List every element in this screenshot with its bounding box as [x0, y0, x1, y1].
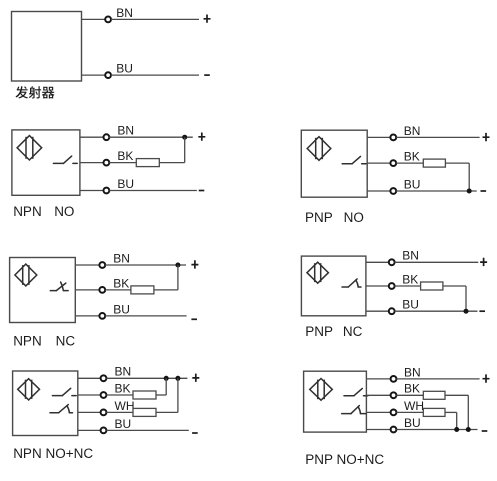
wire BU stub (PNP NO)	[367, 190, 390, 192]
wire BK to resistor (NPN NC)	[105, 289, 131, 291]
wire BU stub (NPN NO)	[80, 190, 103, 192]
resistor load 2 (NPN NO+NC)	[133, 408, 156, 416]
node BN (PNP NO)	[390, 135, 396, 141]
wire BU (PNP NO)	[396, 190, 477, 192]
svg-text:PNP NO+NC: PNP NO+NC	[305, 452, 384, 467]
resistor load (NPN NC)	[131, 286, 154, 294]
caption 发射器	[16, 86, 55, 98]
node BN (NPN NO)	[104, 134, 110, 140]
junction BN/WH tie (NPN NO+NC)	[175, 376, 180, 381]
resistor load (PNP NC)	[421, 282, 443, 290]
sensor symbol (rhombus) (PNP NO)	[307, 137, 331, 161]
svg-text:PNP: PNP	[305, 210, 333, 225]
svg-text:BU: BU	[404, 416, 421, 430]
resistor load 1 (NPN NO+NC)	[133, 391, 156, 399]
wire BN (PNP NO)	[396, 136, 480, 138]
wire BU stub (transmitter)	[82, 74, 106, 76]
svg-text:WH: WH	[115, 399, 135, 413]
minus terminal NPN NO -	[199, 190, 205, 192]
wire BU stub (NPN NO+NC)	[78, 429, 101, 431]
wire resistor to riser (NPN NC)	[154, 289, 178, 291]
sensor body NPN NO+NC sensor	[13, 371, 78, 436]
svg-text:BU: BU	[116, 62, 133, 76]
node BU (NPN NO)	[104, 188, 110, 194]
resistor load (NPN NO)	[136, 159, 159, 167]
sensor symbol (rhombus) (NPN NO)	[17, 136, 42, 160]
wire dropper WH (PNP NO+NC)	[456, 412, 458, 429]
switch contact NO (PNP NO+NC)	[344, 388, 368, 395]
sensor symbol (rhombus) (PNP NC)	[307, 262, 328, 283]
junction BN/BK tie (NPN NC)	[175, 263, 180, 268]
svg-text:BU: BU	[402, 298, 419, 312]
svg-text:BU: BU	[113, 302, 130, 316]
sensor body PNP NO+NC sensor	[304, 371, 367, 432]
wire BN (NPN NO+NC)	[106, 377, 187, 379]
node BU (PNP NO)	[390, 188, 396, 194]
wire resistor to dropper2 (PNP NO+NC)	[445, 411, 457, 413]
wire BU (transmitter)	[111, 74, 199, 76]
resistor load 1 (PNP NO+NC)	[423, 391, 445, 399]
sensor symbol (rhombus) (NPN NO+NC)	[18, 379, 40, 400]
wire BN (PNP NO+NC)	[396, 378, 479, 380]
wire BK to resistor (NPN NO+NC)	[106, 394, 133, 396]
node BN (PNP NO+NC)	[391, 376, 397, 382]
svg-text:BN: BN	[402, 249, 419, 263]
plus terminal transmitter +	[204, 15, 211, 23]
svg-text:NPN: NPN	[13, 333, 42, 348]
svg-text:WH: WH	[404, 399, 424, 413]
wire dropper BK (PNP NO+NC)	[467, 395, 469, 429]
sensor body PNP NO sensor	[301, 130, 367, 197]
wire BN (NPN NO)	[109, 136, 193, 138]
wire resistor to riser2 (NPN NO+NC)	[156, 411, 178, 413]
wire BU (NPN NO+NC)	[106, 429, 189, 431]
wire BU (PNP NC)	[395, 310, 478, 312]
wire riser BK (NPN NO+NC)	[165, 378, 167, 395]
wire BN stub (PNP NO+NC)	[366, 378, 390, 380]
svg-text:PNP: PNP	[305, 324, 333, 339]
svg-text:BU: BU	[115, 417, 132, 431]
wire BU stub (PNP NC)	[366, 310, 389, 312]
wire riser (NPN NO)	[184, 137, 186, 162]
svg-text:BN: BN	[113, 251, 130, 265]
wire BN stub (PNP NC)	[366, 261, 389, 263]
plus terminal NPN NO+NC +	[192, 374, 199, 382]
wire WH to resistor (NPN NO+NC)	[106, 411, 133, 413]
node BK (NPN NO+NC)	[101, 392, 107, 398]
wire BK stub (NPN NC)	[75, 289, 99, 291]
resistor load (PNP NO)	[423, 159, 445, 167]
plus terminal NPN NC +	[191, 260, 198, 268]
node BN (PNP NC)	[389, 259, 395, 265]
minus terminal NPN NC -	[191, 318, 197, 320]
wire BK stub (NPN NO)	[80, 162, 103, 164]
wire BU (NPN NO)	[109, 190, 197, 192]
svg-text:BN: BN	[116, 6, 133, 20]
switch contact NC (PNP NC)	[342, 279, 361, 287]
resistor load 2 (PNP NO+NC)	[423, 408, 445, 416]
wire WH stub (NPN NO+NC)	[78, 411, 101, 413]
switch contact NC (PNP NO+NC)	[342, 406, 366, 414]
plus terminal PNP NO +	[483, 133, 490, 141]
wire resistor to riser (NPN NO)	[159, 162, 184, 164]
svg-text:BK: BK	[115, 381, 131, 395]
node WH (PNP NO+NC)	[391, 410, 397, 416]
wire BU stub (PNP NO+NC)	[366, 429, 390, 431]
minus terminal PNP NC -	[479, 310, 485, 312]
plus terminal PNP NO+NC +	[483, 374, 490, 382]
switch contact NC (NPN NC)	[50, 282, 68, 291]
wire resistor to dropper1 (PNP NO+NC)	[445, 394, 468, 396]
junction BN/BK tie (NPN NO+NC)	[164, 376, 169, 381]
node BK (NPN NO)	[104, 160, 110, 166]
sensor body PNP NC sensor	[301, 256, 366, 316]
minus terminal NPN NO+NC -	[192, 432, 198, 434]
plus terminal PNP NC +	[480, 258, 487, 266]
minus terminal PNP NO+NC -	[482, 430, 488, 432]
junction BN/BK tie (NPN NO)	[182, 135, 187, 140]
sensor symbol (rhombus) (PNP NO+NC)	[310, 379, 333, 401]
node BK (PNP NO+NC)	[391, 392, 397, 398]
svg-text:BN: BN	[404, 124, 421, 138]
svg-text:BU: BU	[117, 177, 134, 191]
wire BN stub (NPN NO+NC)	[78, 377, 101, 379]
wire WH stub (PNP NO+NC)	[366, 411, 390, 413]
sensor body transmitter	[12, 12, 82, 82]
wire BK to resistor (NPN NO)	[109, 162, 136, 164]
node BN (NPN NO+NC)	[101, 375, 107, 381]
junction BK/BU tie (PNP NO)	[467, 189, 472, 194]
svg-text:BN: BN	[404, 365, 421, 379]
wire BN (PNP NC)	[395, 261, 479, 263]
svg-text:BK: BK	[113, 276, 129, 290]
wire BN stub (NPN NO)	[80, 136, 103, 138]
wire BN stub (PNP NO)	[367, 136, 390, 138]
node BK (PNP NO)	[390, 160, 396, 166]
junction WH/BU tie (PNP NO+NC)	[454, 427, 459, 432]
svg-text:BK: BK	[117, 149, 133, 163]
svg-text:NO: NO	[344, 210, 364, 225]
node BU (transmitter)	[105, 72, 111, 78]
svg-text:BN: BN	[117, 124, 134, 138]
junction BK/BU tie (PNP NC)	[464, 309, 469, 314]
wire resistor to dropper (PNP NO)	[445, 162, 469, 164]
wire dropper (PNP NO)	[468, 163, 470, 191]
wire BN (transmitter)	[111, 18, 199, 20]
node BK (PNP NC)	[389, 283, 395, 289]
wire riser WH (NPN NO+NC)	[177, 378, 179, 412]
svg-text:NPN NO+NC: NPN NO+NC	[13, 446, 93, 461]
wire BN stub (transmitter)	[82, 18, 106, 20]
wire BK stub (NPN NO+NC)	[78, 394, 101, 396]
plus terminal NPN NO +	[198, 133, 205, 141]
svg-text:BU: BU	[404, 177, 421, 191]
node BK (NPN NC)	[99, 287, 105, 293]
svg-text:BK: BK	[404, 382, 420, 396]
minus terminal transmitter -	[204, 74, 210, 76]
switch contact NO (PNP NO)	[342, 156, 366, 163]
svg-text:NO: NO	[54, 204, 74, 219]
wire riser (NPN NC)	[177, 265, 179, 290]
wire BK stub (PNP NO)	[367, 162, 390, 164]
sensor symbol (rhombus) (NPN NC)	[15, 264, 37, 286]
node BN (NPN NC)	[99, 262, 105, 268]
sensor body NPN NO sensor	[12, 130, 80, 195]
svg-text:NC: NC	[56, 333, 76, 348]
minus terminal PNP NO -	[481, 190, 487, 192]
node BU (PNP NO+NC)	[391, 427, 397, 433]
node BN (transmitter)	[105, 17, 111, 23]
wire WH to resistor (PNP NO+NC)	[396, 411, 423, 413]
wire BK to resistor (PNP NO+NC)	[396, 394, 423, 396]
node BU (NPN NO+NC)	[101, 428, 107, 434]
switch contact NC (NPN NO+NC)	[50, 405, 73, 413]
wire BK to resistor (PNP NO)	[396, 162, 423, 164]
node WH (NPN NO+NC)	[101, 410, 107, 416]
wire resistor to riser1 (NPN NO+NC)	[156, 394, 166, 396]
node BU (PNP NC)	[389, 308, 395, 314]
switch contact NO (NPN NO)	[53, 156, 77, 163]
wire dropper (PNP NC)	[465, 286, 467, 311]
wire BN stub (NPN NC)	[75, 264, 99, 266]
switch contact NO (NPN NO+NC)	[52, 388, 76, 395]
wire BK stub (PNP NC)	[366, 285, 389, 287]
wire BK stub (PNP NO+NC)	[366, 394, 390, 396]
node BU (NPN NC)	[99, 313, 105, 319]
svg-text:BK: BK	[404, 150, 420, 164]
svg-text:BN: BN	[115, 365, 132, 379]
wire BK to resistor (PNP NC)	[395, 285, 421, 287]
svg-text:BK: BK	[402, 272, 418, 286]
wire BU (PNP NO+NC)	[396, 429, 477, 431]
sensor body NPN NC sensor	[10, 258, 76, 323]
svg-text:NPN: NPN	[13, 204, 42, 219]
wire resistor to dropper (PNP NC)	[443, 285, 466, 287]
junction BK/BU tie (PNP NO+NC)	[466, 427, 471, 432]
wire BU (NPN NC)	[105, 315, 187, 317]
svg-text:NC: NC	[343, 324, 363, 339]
wire BN (NPN NC)	[105, 264, 186, 266]
wire BU stub (NPN NC)	[75, 315, 99, 317]
